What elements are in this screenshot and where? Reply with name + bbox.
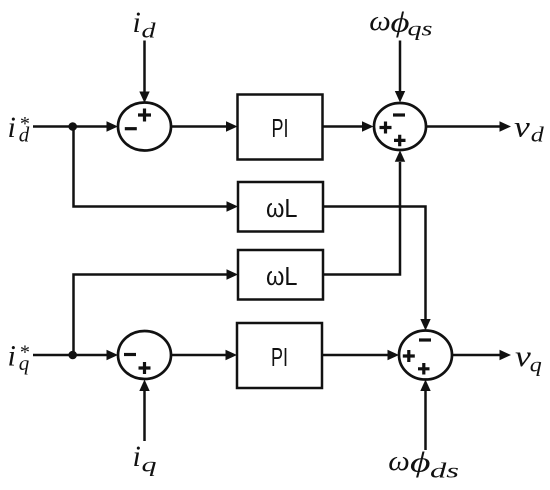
svg-text:d: d bbox=[531, 123, 545, 147]
svg-text:i: i bbox=[8, 111, 16, 144]
svg-text:i: i bbox=[133, 6, 141, 39]
svg-text:PI: PI bbox=[271, 342, 288, 372]
svg-text:ωL: ωL bbox=[266, 261, 298, 291]
svg-text:PI: PI bbox=[272, 113, 289, 143]
svg-text:i: i bbox=[133, 440, 141, 473]
svg-text:ds: ds bbox=[430, 459, 459, 483]
svg-text:v: v bbox=[514, 111, 531, 144]
svg-text:ϕ: ϕ bbox=[410, 447, 431, 478]
svg-text:i: i bbox=[8, 339, 16, 372]
svg-text:qs: qs bbox=[408, 17, 433, 41]
svg-text:d: d bbox=[142, 18, 157, 42]
svg-text:ω: ω bbox=[388, 446, 410, 477]
svg-text:q: q bbox=[530, 352, 543, 376]
svg-text:ω: ω bbox=[369, 6, 391, 37]
svg-text:q: q bbox=[19, 351, 30, 375]
svg-text:q: q bbox=[142, 452, 158, 476]
svg-text:d: d bbox=[19, 123, 30, 147]
svg-text:ωL: ωL bbox=[266, 193, 298, 223]
